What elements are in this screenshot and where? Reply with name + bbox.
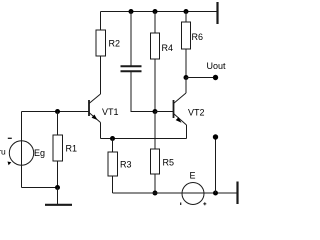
wire R6 top lead [185,12,187,23]
svg-text:VT2: VT2 [188,108,205,118]
node dot R6 top rail [184,9,189,14]
svg-text:Eg: Eg [34,148,45,158]
wire bottom left [22,187,58,189]
svg-text:R1: R1 [66,144,78,154]
source Eg [9,141,33,165]
wire R3 bottom lead [112,176,114,193]
wire R1 bottom lead [57,161,59,188]
wire VT1 base input [22,111,89,113]
node dot capacitor/top rail [129,9,134,14]
wire R6 bottom to collector node [185,49,187,78]
wire R5 bottom lead [154,174,156,193]
polarity arrow Eg [8,162,12,166]
node dot E output junction [213,191,218,196]
resistor R5 [151,149,160,174]
polarity minus Eg [8,137,12,139]
capacitor C1 [121,66,142,71]
power terminal bottom right [236,182,238,205]
wire R2 bottom to VT1 collector [100,56,102,94]
resistor R3 [108,152,118,176]
capacitor C1 top lead [130,12,132,66]
polarity plus E [203,202,206,205]
ground bar [45,204,72,206]
resistor R6 [182,22,191,49]
svg-text:ru: ru [0,146,6,156]
svg-text:E: E [190,171,196,181]
terminal dot Uout [213,75,218,80]
svg-text:Uout: Uout [207,61,227,71]
capacitor C1 bottom lead to node [131,72,155,112]
terminal dot lower output [213,134,218,139]
node dot ground junction [55,185,60,190]
resistor R4 [151,33,160,59]
svg-text:R4: R4 [162,43,174,53]
svg-text:R2: R2 [109,39,121,49]
wire output lower riser [215,137,217,193]
power terminal top right [216,2,218,24]
source E [182,183,204,205]
wire R4 bottom to base node [154,59,156,112]
polarity minus E [180,203,182,206]
svg-text:R6: R6 [192,32,204,42]
node dot VT1 emitter / R3 [110,136,115,141]
wire emitter coupling [101,138,187,140]
wire R3 top lead [112,139,114,153]
wire R4 top lead [154,12,156,34]
node dot R5 bottom rail [153,191,158,196]
wire Eg branch vertical [21,112,23,188]
wire R2 top lead [100,12,102,31]
node dot base divider junction [153,109,158,114]
node dot R1 input [55,109,60,114]
node dot collector VT2 / Uout [184,75,189,80]
transistor VT1 [89,94,101,139]
wire R1 top lead [57,112,59,136]
wire VT2 base [155,111,173,113]
node dot R4 top rail [153,9,158,14]
ground lead [57,188,59,205]
svg-text:R3: R3 [120,160,132,170]
transistor VT2 [174,78,187,139]
svg-text:R5: R5 [163,158,175,168]
wire bottom rail [113,192,238,194]
resistor R1 [53,135,63,161]
wire output [186,77,216,79]
wire R5 top lead [154,112,156,150]
resistor R2 [96,30,106,56]
svg-text:VT1: VT1 [102,107,119,117]
wire top supply rail [101,11,218,13]
